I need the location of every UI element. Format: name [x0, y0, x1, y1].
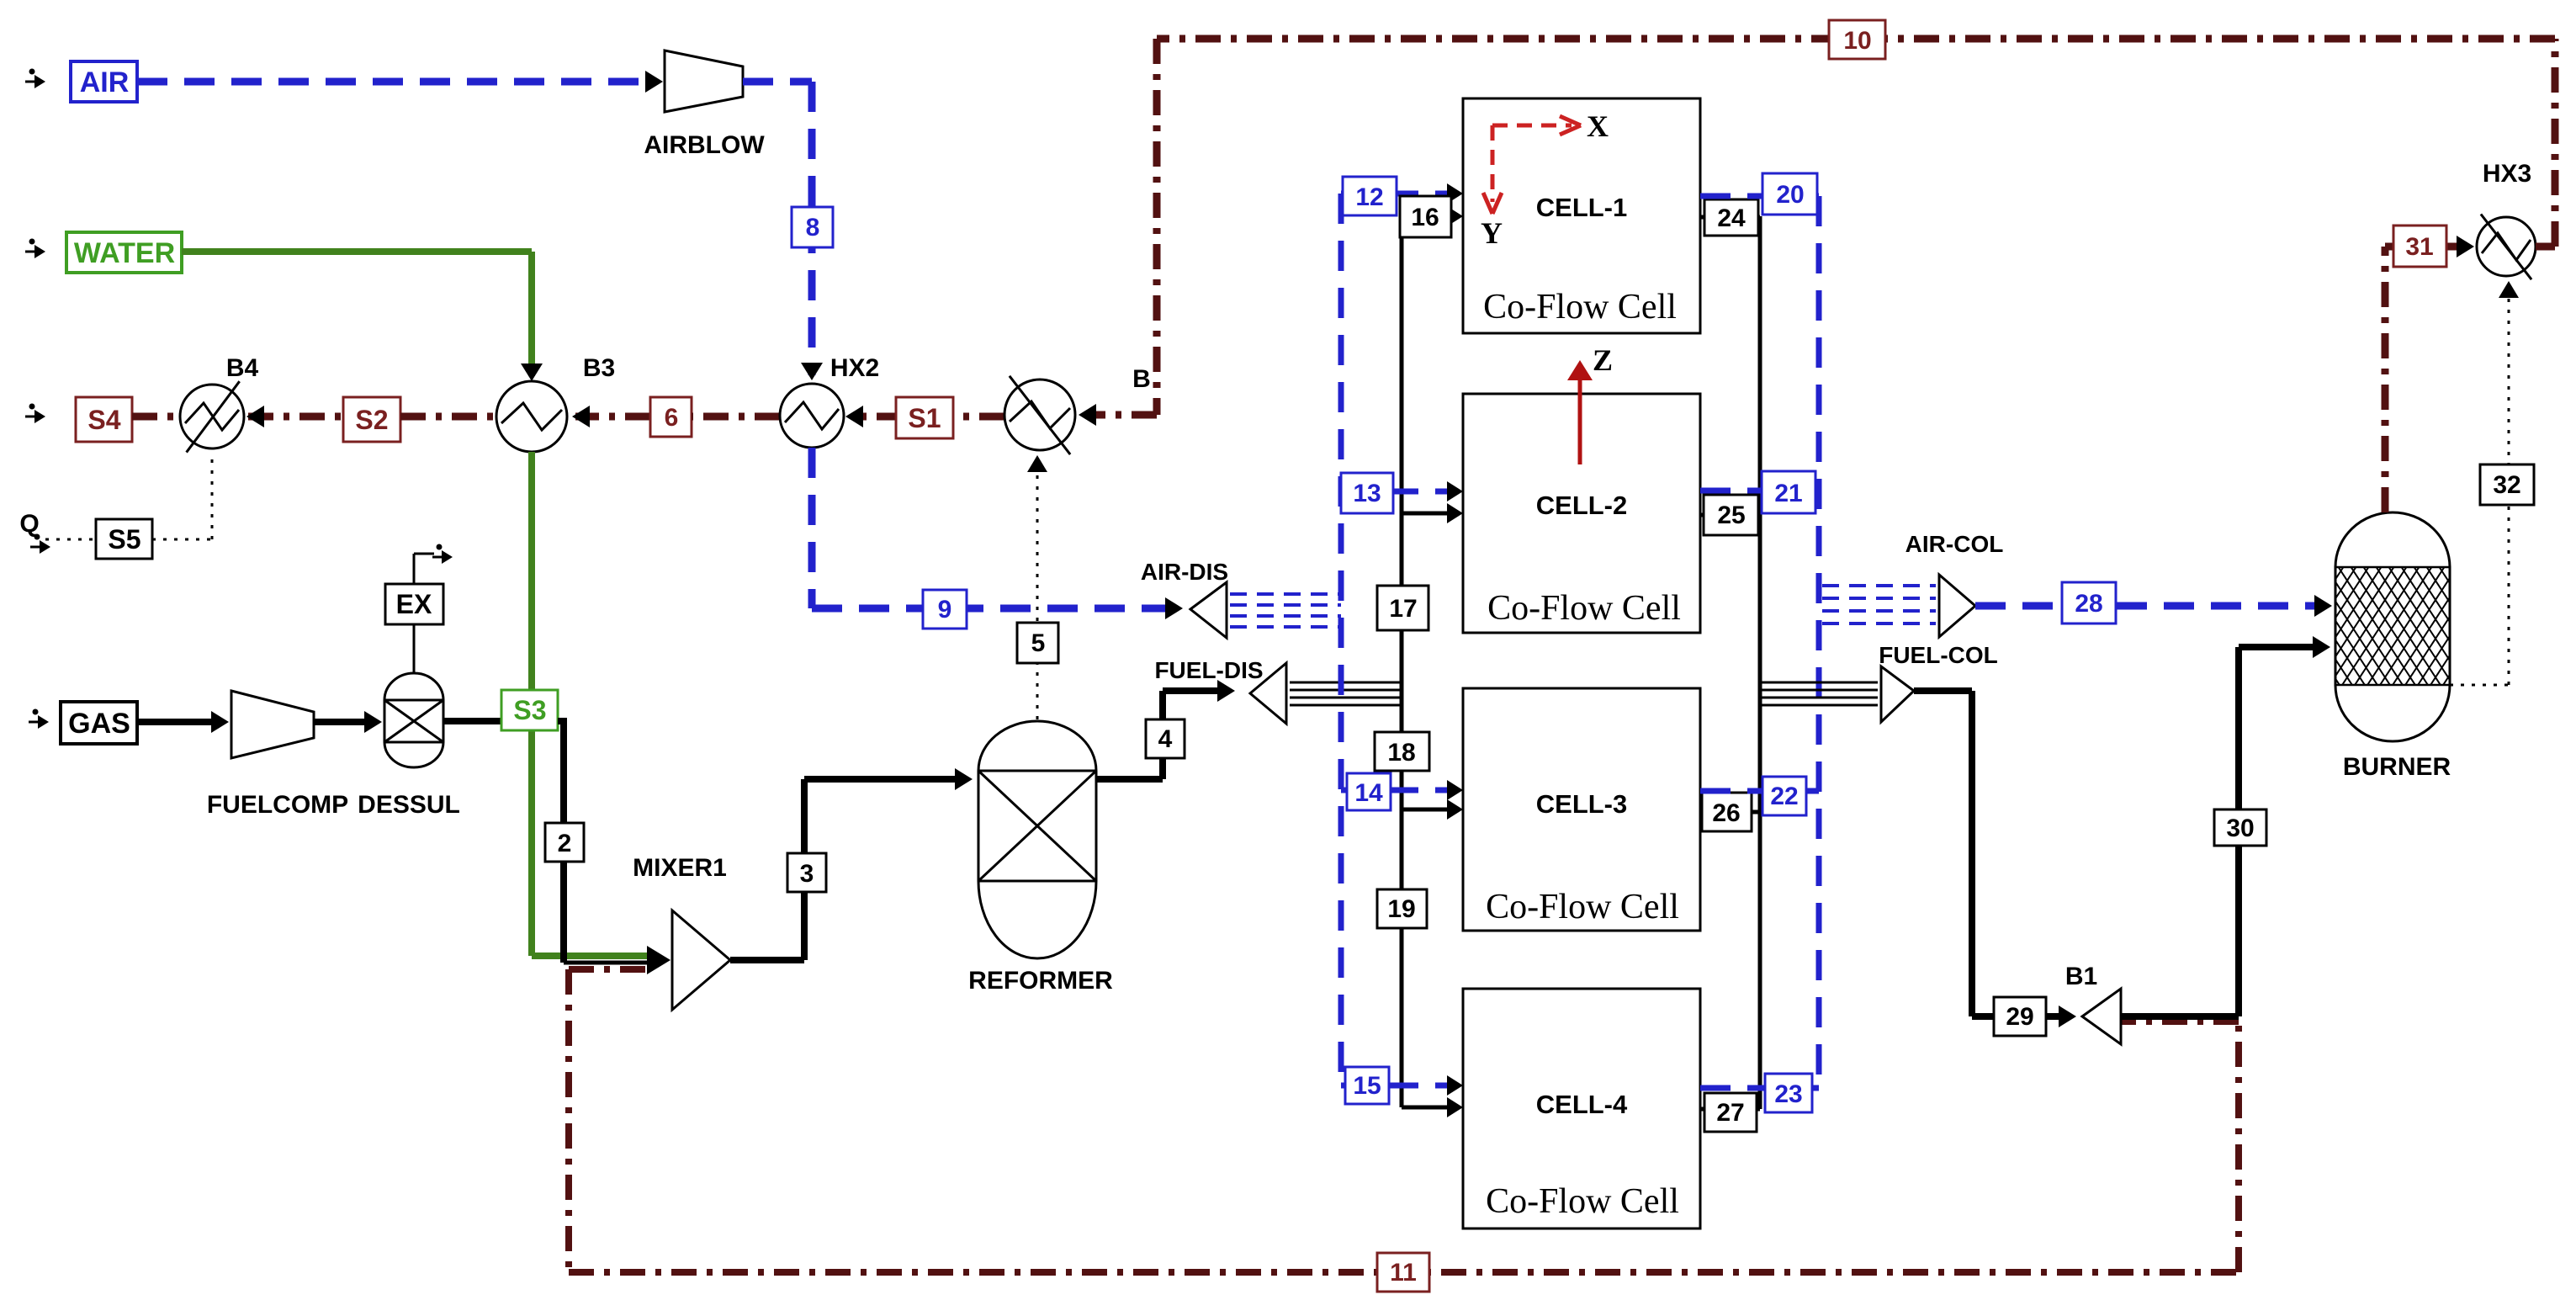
- stream box 30: [2214, 809, 2266, 846]
- fuel cell CELL-1: [1463, 98, 1700, 333]
- svg-text:AIR-COL: AIR-COL: [1905, 531, 2004, 557]
- stream box 2: [545, 823, 584, 862]
- svg-text:Y: Y: [1481, 216, 1503, 250]
- svg-text:S1: S1: [908, 403, 941, 433]
- wire 30 B1 to BURNER: [2121, 1013, 2239, 1020]
- stream box 9: [923, 590, 967, 629]
- stream box 31: [2393, 226, 2446, 267]
- wire 11 recycle to MIXER1: [569, 966, 655, 973]
- stream box 28: [2062, 582, 2116, 624]
- wire 23 stub: [1700, 1085, 1819, 1091]
- svg-text:BURNER: BURNER: [2343, 753, 2451, 781]
- collector AIR-COL: [1939, 575, 1975, 637]
- svg-text:11: 11: [1390, 1259, 1417, 1287]
- wire 12 air to CELL-1: [1341, 191, 1455, 197]
- fuel cell CELL-4: [1463, 989, 1700, 1228]
- fuel cell CELL-2: [1463, 394, 1700, 633]
- cooler B: [1004, 379, 1075, 450]
- wire 29 FUEL-COL to B1: [1914, 687, 1972, 694]
- svg-text:30: 30: [2226, 815, 2254, 842]
- svg-text:18: 18: [1387, 739, 1415, 767]
- heater B4: [180, 385, 244, 448]
- wire 2 S3 to MIXER1: [558, 718, 564, 724]
- wire 4 REFORMER to FUEL-DIS: [1096, 776, 1163, 783]
- svg-text:17: 17: [1389, 595, 1417, 623]
- stream box 10: [1829, 20, 1885, 59]
- heat wire Q to S5: [45, 539, 96, 541]
- wire 20 stub: [1700, 194, 1819, 199]
- svg-text:FUEL-COL: FUEL-COL: [1879, 642, 1998, 668]
- wire 18 fuel to CELL-3: [1402, 808, 1455, 812]
- wire 10 HX3 to B: [2536, 243, 2555, 251]
- wire air manifold vertical: [1338, 194, 1344, 1085]
- distributor AIR-DIS: [1190, 582, 1227, 638]
- svg-text:FUEL-DIS: FUEL-DIS: [1154, 657, 1263, 683]
- svg-text:Co-Flow Cell: Co-Flow Cell: [1483, 288, 1677, 326]
- svg-text:CELL-3: CELL-3: [1536, 789, 1628, 819]
- svg-text:B1: B1: [2065, 963, 2097, 990]
- svg-text:GAS: GAS: [68, 708, 130, 740]
- heat wire 32 BURNER to HX3: [2450, 684, 2509, 687]
- svg-text:31: 31: [2405, 233, 2433, 261]
- svg-text:Z: Z: [1593, 343, 1613, 377]
- wire fuel manifold vertical: [1400, 215, 1404, 1107]
- svg-text:CELL-1: CELL-1: [1536, 193, 1628, 222]
- svg-text:13: 13: [1353, 480, 1381, 507]
- source arrow GAS feed: [33, 709, 39, 715]
- svg-text:AIR: AIR: [80, 66, 130, 98]
- axis Z arrow: [1578, 367, 1582, 464]
- fuel distribution bundle: [1290, 682, 1402, 684]
- svg-text:2: 2: [558, 830, 572, 857]
- stream box 22: [1762, 777, 1806, 815]
- wire GAS to FUELCOMP: [137, 719, 220, 725]
- wire 9 HX2 to AIR-DIS: [808, 448, 816, 608]
- wire 28 AIR-COL to BURNER: [1975, 602, 2322, 610]
- svg-text:14: 14: [1354, 779, 1383, 807]
- wire green B3 to MIXER1: [528, 452, 535, 956]
- svg-text:29: 29: [2006, 1003, 2033, 1031]
- wire WATER green to B3: [182, 248, 532, 255]
- wire 22 stub: [1700, 788, 1819, 794]
- svg-text:AIRBLOW: AIRBLOW: [644, 131, 765, 159]
- wire air collect manifold: [1816, 196, 1822, 1088]
- stream box S4: [76, 397, 132, 442]
- axis X arrow: [1492, 124, 1572, 128]
- heat wire S5 to B4: [152, 539, 212, 541]
- svg-text:3: 3: [800, 860, 814, 888]
- stream box S3: [501, 690, 558, 730]
- wire 6 to B3: [575, 413, 650, 421]
- axis Y arrow: [1491, 125, 1495, 202]
- svg-text:B3: B3: [583, 354, 615, 382]
- svg-text:Co-Flow Cell: Co-Flow Cell: [1486, 1182, 1679, 1221]
- stream label GAS: [61, 702, 137, 744]
- source arrow WATER feed: [29, 239, 35, 245]
- wire FUELCOMP to DESSUL: [314, 719, 374, 725]
- work stream EX box: [385, 584, 443, 624]
- stream box S2: [343, 397, 400, 442]
- work arrow EX out: [413, 554, 416, 584]
- stream box 11: [1377, 1253, 1429, 1292]
- wire S2 to B4: [248, 413, 343, 421]
- wire 3 MIXER1 to REFORMER: [730, 957, 804, 963]
- stream box 6: [650, 397, 692, 437]
- stream box 23: [1765, 1074, 1812, 1112]
- wire 31 BURNER to HX3: [2382, 247, 2389, 512]
- wire 16 fuel to CELL-1: [1402, 215, 1455, 219]
- fuel collection bundle: [1760, 682, 1878, 684]
- wire B to S1: [953, 413, 1004, 421]
- burner BURNER vessel: [2335, 512, 2450, 741]
- svg-text:16: 16: [1411, 204, 1439, 231]
- collector FUEL-COL: [1881, 666, 1914, 722]
- stream box 14: [1347, 773, 1391, 810]
- stream box 3: [787, 853, 826, 892]
- svg-text:15: 15: [1353, 1072, 1381, 1100]
- stream box 18: [1375, 732, 1429, 771]
- heat exchanger HX2: [780, 384, 844, 448]
- stream box S1: [896, 397, 953, 438]
- svg-text:12: 12: [1355, 183, 1383, 211]
- svg-text:MIXER1: MIXER1: [633, 854, 727, 882]
- svg-text:22: 22: [1770, 783, 1798, 810]
- reactor REFORMER: [978, 721, 1096, 958]
- svg-text:S3: S3: [513, 695, 546, 725]
- wire 15 air to CELL-4: [1341, 1083, 1455, 1089]
- svg-text:19: 19: [1387, 895, 1415, 923]
- wire HX2 to 6: [692, 413, 780, 421]
- stream box 25: [1704, 495, 1758, 535]
- svg-text:HX2: HX2: [830, 354, 879, 382]
- heater B3: [496, 381, 567, 452]
- mixer inlet arrow: [647, 946, 671, 974]
- svg-text:27: 27: [1716, 1099, 1744, 1127]
- svg-text:FUELCOMP: FUELCOMP: [207, 791, 348, 819]
- splitter B1: [2082, 989, 2121, 1044]
- svg-text:23: 23: [1774, 1080, 1802, 1108]
- svg-text:DESSUL: DESSUL: [358, 791, 460, 819]
- stream label WATER: [66, 232, 182, 273]
- wire EX to DESSUL: [413, 624, 416, 673]
- wire 8 AIRBLOW to HX2: [743, 78, 812, 86]
- wire 25 stub: [1700, 513, 1760, 517]
- stream box 26: [1702, 793, 1752, 831]
- wire B3 to S2: [400, 413, 496, 421]
- wire AIR blue dashed to AIRBLOW: [137, 78, 655, 86]
- svg-text:B4: B4: [226, 354, 259, 382]
- svg-text:CELL-2: CELL-2: [1536, 491, 1628, 520]
- stream box 27: [1704, 1093, 1757, 1132]
- svg-text:24: 24: [1717, 204, 1746, 232]
- stream box 20: [1762, 173, 1817, 215]
- svg-text:5: 5: [1031, 629, 1046, 657]
- svg-text:HX3: HX3: [2483, 160, 2531, 188]
- svg-text:32: 32: [2493, 471, 2520, 499]
- stream box 5: [1017, 623, 1058, 663]
- source arrow S4 out: [29, 404, 35, 410]
- wire 17 fuel to CELL-2: [1402, 512, 1455, 516]
- air distribution bundle: [1230, 592, 1341, 596]
- mixer MIXER1: [672, 910, 730, 1010]
- svg-text:26: 26: [1712, 799, 1740, 827]
- svg-text:21: 21: [1774, 480, 1802, 507]
- wire DESSUL to S3: [443, 718, 501, 724]
- svg-text:9: 9: [938, 596, 952, 624]
- svg-text:WATER: WATER: [74, 237, 175, 269]
- source arrow AIR feed: [29, 69, 35, 75]
- svg-text:8: 8: [806, 214, 820, 241]
- wire 13 air to CELL-2: [1341, 489, 1455, 495]
- svg-text:EX: EX: [396, 589, 432, 619]
- wire fuel collect manifold: [1758, 216, 1762, 1109]
- vessel DESSUL: [384, 673, 443, 767]
- compressor AIRBLOW: [665, 50, 743, 112]
- svg-text:S5: S5: [108, 524, 140, 555]
- stream box 29: [1994, 997, 2046, 1036]
- wire 14 air to CELL-3: [1341, 788, 1455, 793]
- wire 19 fuel to CELL-4: [1402, 1106, 1455, 1110]
- wire 21 stub: [1700, 488, 1819, 494]
- fuel cell CELL-3: [1463, 688, 1700, 931]
- svg-text:X: X: [1587, 109, 1609, 143]
- svg-text:20: 20: [1776, 181, 1804, 209]
- stream box 16: [1400, 196, 1451, 237]
- wire 27 stub: [1700, 1107, 1760, 1112]
- svg-text:AIR-DIS: AIR-DIS: [1141, 559, 1228, 585]
- stream box S5: [96, 519, 152, 559]
- svg-text:4: 4: [1158, 725, 1173, 753]
- stream box 24: [1704, 199, 1758, 236]
- heat wire 5 reformer to B: [1036, 459, 1039, 719]
- svg-text:REFORMER: REFORMER: [968, 967, 1113, 995]
- stream label AIR: [71, 61, 137, 102]
- svg-text:Q: Q: [19, 510, 39, 538]
- stream box 12: [1343, 177, 1397, 215]
- stream box 4: [1146, 719, 1185, 758]
- stream box 17: [1377, 586, 1428, 630]
- svg-text:S2: S2: [355, 405, 388, 435]
- compressor FUELCOMP: [231, 691, 314, 758]
- stream box 13: [1341, 473, 1393, 513]
- wire S1 to HX2: [851, 413, 953, 421]
- wire 24 stub: [1700, 215, 1760, 220]
- svg-text:CELL-4: CELL-4: [1536, 1090, 1628, 1119]
- stream box 19: [1377, 889, 1427, 928]
- svg-text:25: 25: [1717, 501, 1745, 529]
- air collection bundle: [1822, 584, 1936, 587]
- svg-text:10: 10: [1843, 27, 1871, 55]
- stream box 21: [1762, 471, 1815, 513]
- wire 26 stub: [1700, 810, 1760, 815]
- svg-text:28: 28: [2075, 590, 2102, 618]
- distributor FUEL-DIS: [1250, 663, 1286, 724]
- svg-text:B: B: [1132, 365, 1151, 393]
- heat exchanger HX3: [2477, 217, 2536, 276]
- svg-text:Co-Flow Cell: Co-Flow Cell: [1487, 589, 1681, 628]
- svg-text:S4: S4: [87, 405, 120, 435]
- stream box 8: [792, 207, 833, 247]
- svg-text:Co-Flow Cell: Co-Flow Cell: [1486, 888, 1679, 926]
- stream box 15: [1345, 1067, 1389, 1104]
- svg-text:6: 6: [665, 404, 679, 432]
- wire S4 to B4: [132, 413, 181, 421]
- stream box 32: [2480, 464, 2534, 505]
